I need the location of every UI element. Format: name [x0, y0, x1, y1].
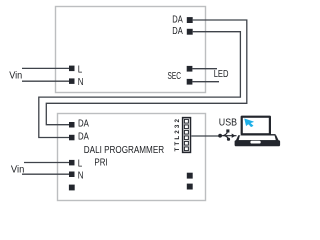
- svg-text:DA: DA: [172, 14, 183, 25]
- connector TTL232 body: [183, 118, 191, 153]
- wire Vin to N (programmer): [22, 173, 69, 175]
- connector TTL232 pin 2: [184, 125, 188, 129]
- wire Vin to L (programmer): [24, 162, 69, 164]
- svg-text:DA: DA: [172, 26, 183, 37]
- terminal DA upper (top box): [187, 17, 193, 23]
- USB symbol main line: [220, 135, 236, 137]
- svg-text:SEC: SEC: [168, 71, 182, 82]
- terminal DA lower (programmer): [69, 135, 75, 141]
- terminal N (programmer): [69, 172, 75, 178]
- connector TTL232 pin 3: [184, 130, 188, 134]
- wire DA upper to programmer DA upper: [46, 20, 247, 125]
- DALI programmer box (bottom): [58, 114, 206, 201]
- terminal L (programmer): [69, 160, 75, 166]
- svg-text:USB: USB: [219, 117, 237, 128]
- LED driver box (top): [56, 7, 206, 93]
- terminal DA lower (top box): [187, 29, 193, 35]
- terminal spare lower (programmer right): [187, 184, 193, 190]
- terminal spare upper (programmer right): [187, 173, 193, 179]
- wire SEC lower to LED: [192, 81, 219, 83]
- laptop screen: [241, 116, 271, 136]
- svg-text:N: N: [78, 77, 84, 88]
- svg-text:DALI PROGRAMMER: DALI PROGRAMMER: [84, 145, 164, 156]
- svg-text:L: L: [78, 64, 83, 75]
- terminal SEC upper: [187, 66, 193, 72]
- svg-text:Vin: Vin: [9, 70, 22, 81]
- terminal L (top box): [69, 66, 75, 72]
- terminal N (top box): [69, 78, 75, 84]
- USB symbol arrow: [232, 134, 236, 138]
- USB symbol lower circle: [227, 138, 230, 141]
- USB symbol upper square: [226, 129, 229, 132]
- USB symbol upper branch: [223, 133, 228, 136]
- svg-text:Vin: Vin: [11, 164, 24, 175]
- laptop base: [241, 134, 275, 135]
- wire Vin to L (top box): [22, 67, 69, 69]
- svg-text:DA: DA: [78, 131, 89, 142]
- connector TTL232 pin 1: [184, 119, 188, 123]
- wire DA lower to programmer DA lower: [39, 32, 241, 138]
- terminal DA upper (programmer): [69, 122, 75, 128]
- svg-text:L: L: [78, 159, 83, 170]
- wire Vin to N (top box): [22, 80, 69, 82]
- svg-text:DA: DA: [78, 119, 89, 130]
- wire TTL232 to USB: [191, 135, 218, 137]
- USB symbol lower branch: [224, 136, 228, 138]
- connector TTL232 pin 5: [184, 141, 188, 145]
- svg-text:LED: LED: [214, 69, 229, 80]
- terminal SEC lower: [187, 79, 193, 85]
- connector TTL232 pin 6: [184, 147, 188, 151]
- terminal spare (programmer bottom-left): [69, 185, 75, 191]
- USB symbol dot: [218, 134, 222, 138]
- svg-text:PRI: PRI: [94, 157, 107, 168]
- laptop cursor: [245, 119, 254, 127]
- wire SEC upper to LED: [192, 68, 217, 70]
- svg-text:N: N: [78, 170, 84, 181]
- connector TTL232 pin 4: [184, 136, 188, 140]
